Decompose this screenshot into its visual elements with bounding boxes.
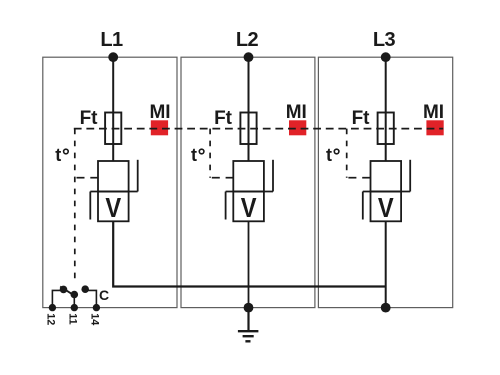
- disconnector 1 crossbar: [90, 191, 137, 193]
- disconnector 1 left stub: [89, 192, 91, 220]
- MI indicator 2 red square: [289, 120, 306, 135]
- ground bar 1: [238, 330, 259, 332]
- dashed t° branch to varistor 1: [77, 177, 85, 179]
- wire fuse 3 to disconnector: [385, 144, 387, 161]
- disconnector 3 right stub: [409, 160, 411, 192]
- svg-text:12: 12: [44, 313, 56, 325]
- fuse Ft3 body: [378, 113, 394, 145]
- svg-text:t: t: [191, 145, 197, 165]
- svg-text:V: V: [105, 192, 121, 223]
- svg-text:14: 14: [88, 313, 100, 325]
- dashed signal line MI bus: [74, 128, 443, 130]
- dashed t° sense line cell 2 vertical: [209, 129, 211, 178]
- wire L3 top to fuse: [385, 57, 387, 112]
- junction dot PE module 3: [381, 303, 391, 313]
- wire L2 top to fuse: [248, 57, 250, 112]
- thermal disconnector 3 box: [371, 161, 402, 192]
- terminal dot L1: [108, 52, 118, 62]
- dashed t° branch to varistor 3: [348, 177, 356, 179]
- enclosure box module 2: [181, 57, 315, 307]
- svg-text:C: C: [99, 287, 109, 303]
- svg-text:11: 11: [66, 313, 78, 324]
- varistor V3 box: [371, 192, 402, 222]
- thermal disconnector 1 box: [98, 161, 129, 192]
- wire L1 top to fuse: [112, 57, 114, 112]
- enclosure box module 1: [43, 57, 177, 307]
- fuse Ft2 body: [240, 113, 256, 145]
- disconnector 2 right stub: [272, 160, 274, 192]
- varistor V1 box: [98, 192, 129, 222]
- disconnector 1 right stub: [137, 160, 139, 192]
- svg-text:Ft: Ft: [80, 108, 99, 129]
- svg-text:t: t: [326, 145, 332, 165]
- wire varistor 1 down and PE bus: [113, 221, 386, 286]
- remote contact terminal 14 wire: [87, 290, 97, 307]
- svg-text:MI: MI: [149, 102, 170, 123]
- disconnector 3 crossbar: [363, 191, 410, 193]
- fuse Ft3 wire through: [385, 113, 387, 145]
- MI indicator 3 red square: [426, 120, 443, 135]
- svg-text:L3: L3: [373, 29, 396, 51]
- dashed t° branch to varistor 2: [212, 177, 220, 179]
- svg-text:L2: L2: [236, 29, 259, 51]
- varistor V2 box: [233, 192, 264, 222]
- contact dot common pivot: [71, 291, 79, 299]
- ground bar 3: [245, 340, 250, 342]
- terminal dot L2: [244, 52, 254, 62]
- disconnector 2 crossbar: [226, 191, 273, 193]
- remote contact terminal 12 wire: [52, 290, 63, 307]
- contact dot NC: [60, 286, 68, 294]
- ground bar 2: [243, 335, 254, 337]
- terminal dot 12: [49, 304, 56, 311]
- svg-text:L1: L1: [100, 29, 123, 51]
- svg-text:Ft: Ft: [352, 108, 371, 129]
- svg-text:MI: MI: [286, 102, 307, 123]
- svg-text:V: V: [378, 192, 394, 223]
- svg-text:V: V: [241, 192, 257, 223]
- fuse Ft1 body: [105, 113, 121, 145]
- junction dot PE module 2: [244, 303, 254, 313]
- wire fuse 1 to disconnector: [112, 144, 114, 161]
- terminal dot L3: [381, 52, 391, 62]
- disconnector 2 left stub: [225, 192, 227, 220]
- wire varistor 3 down to bottom: [385, 221, 387, 307]
- MI indicator 1 red square: [151, 120, 168, 135]
- dashed t° sense line cell 1 vertical: [74, 129, 76, 282]
- svg-text:MI: MI: [423, 102, 444, 123]
- disconnector 3 left stub: [362, 192, 364, 220]
- fuse Ft1 wire through: [112, 113, 114, 145]
- remote contact terminal 11 wire: [73, 295, 75, 308]
- svg-text:Ft: Ft: [214, 108, 233, 129]
- thermal disconnector 2 box: [233, 161, 264, 192]
- terminal dot 14: [93, 304, 100, 311]
- wire to earth: [247, 308, 249, 331]
- terminal dot 11: [71, 304, 78, 311]
- svg-text:t: t: [55, 145, 61, 165]
- wire varistor 2 down to bottom: [248, 221, 250, 307]
- wire fuse 2 to disconnector: [248, 144, 250, 161]
- contact dot NO: [81, 285, 89, 293]
- fuse Ft2 wire through: [248, 113, 250, 145]
- switch arm: [60, 287, 76, 297]
- enclosure box module 3: [318, 57, 452, 307]
- dashed t° sense line cell 3 vertical: [346, 129, 348, 178]
